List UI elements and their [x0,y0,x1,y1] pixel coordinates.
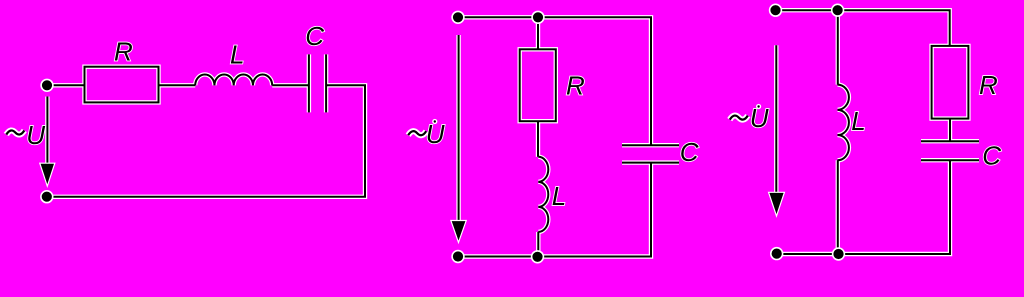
svg-text:L: L [552,181,566,211]
svg-text:U: U [26,120,45,150]
svg-text:R: R [114,37,133,67]
svg-text:L: L [851,106,865,136]
svg-text:U: U [426,119,445,149]
svg-text:C: C [982,141,1001,171]
svg-text:U: U [750,103,769,133]
svg-text:R: R [566,71,585,101]
svg-text:R: R [979,70,998,100]
svg-text:L: L [230,39,244,69]
svg-text:C: C [680,137,699,167]
svg-text:C: C [305,21,324,51]
